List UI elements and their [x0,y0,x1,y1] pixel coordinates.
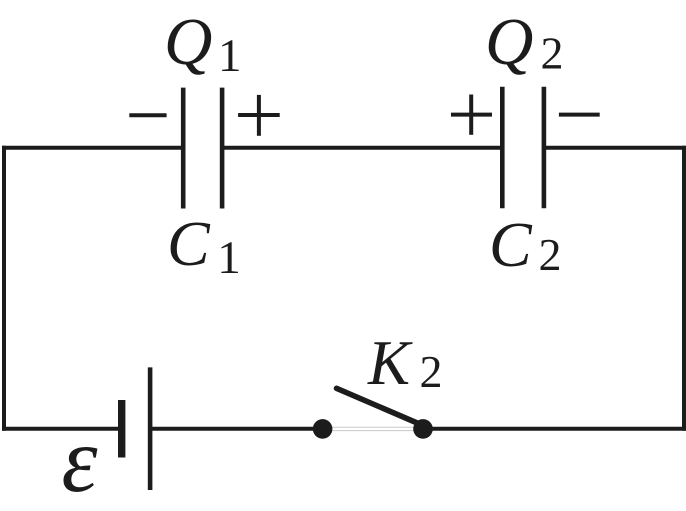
plus sign of C1 [238,95,280,136]
svg-text:2: 2 [539,229,562,280]
capacitor C1 [183,88,222,209]
wire top segment middle [224,146,501,150]
capacitor C2 [502,87,544,209]
label K2 [367,328,443,398]
wire right vertical [682,146,686,431]
minus sign of C1 [129,113,166,117]
switch K2: left contact dot [313,419,333,439]
wire top segment left [2,146,182,150]
svg-text:1: 1 [218,30,242,82]
wire top segment right [546,146,686,150]
plus sign of C2 [451,95,492,135]
svg-text:C: C [489,209,533,280]
svg-text:2: 2 [420,346,443,397]
svg-text:ε: ε [62,409,98,511]
wire bottom segment left [2,427,119,431]
label C2 [489,209,562,280]
svg-text:Q: Q [485,5,533,79]
label Q2 [485,5,564,79]
switch K2: lever [337,388,424,425]
label Q1 [164,5,242,82]
label C1 [167,208,241,284]
wire bottom segment middle [150,427,314,431]
switch K2: right contact dot [413,419,433,439]
minus sign of C2 [559,113,600,117]
switch K2: erased wire artifact between contacts [331,427,414,430]
svg-text:C: C [167,208,211,279]
wire bottom segment right [431,427,686,431]
svg-text:2: 2 [541,28,564,79]
svg-text:1: 1 [217,232,241,284]
battery E: short negative plate [118,400,125,458]
wire left vertical [2,146,6,431]
svg-text:K: K [367,328,413,398]
battery E: long positive plate [148,367,153,490]
svg-text:Q: Q [164,5,212,79]
